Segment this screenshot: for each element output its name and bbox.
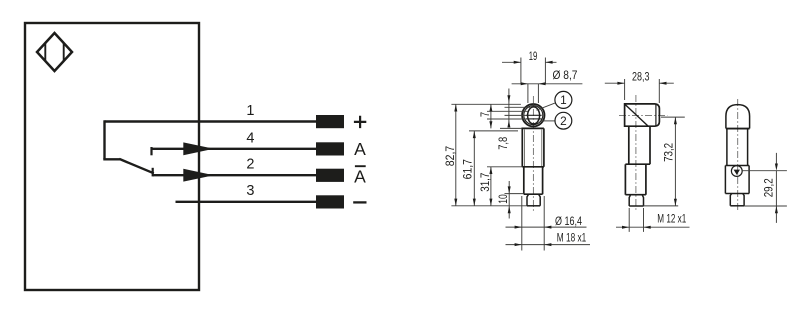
svg-text:82,7: 82,7 [443, 146, 457, 167]
svg-text:1: 1 [560, 93, 567, 107]
wire internal vertical [103, 120, 105, 159]
witness line bottom datum [451, 205, 527, 207]
svg-text:7: 7 [478, 112, 492, 118]
body step line [522, 166, 544, 168]
head diagonal [625, 104, 648, 126]
dimension 31,7 line [490, 167, 492, 206]
polarity label minus [353, 201, 366, 203]
wire internal stub [103, 158, 120, 160]
step line rear [725, 165, 749, 167]
svg-text:M 18 x1: M 18 x1 [557, 231, 587, 245]
witness line nut top (10) [505, 193, 524, 195]
centerline view3 [737, 99, 739, 212]
dimension 19 arrows [514, 61, 553, 64]
sensor body rectangle [25, 23, 199, 290]
body flange top line [521, 127, 544, 129]
balloon 1 leader [537, 103, 555, 110]
dimension 28,3 extension lines [625, 79, 660, 103]
svg-text:7,8: 7,8 [496, 137, 510, 150]
svg-text:28,3: 28,3 [632, 70, 650, 84]
ball slot bottom edge [526, 118, 542, 120]
dimension 7,8 line [508, 89, 510, 128]
svg-text:10: 10 [496, 194, 510, 204]
witness line top (82,7 / 7) [451, 103, 521, 105]
arrow on wire 4 [183, 142, 214, 155]
svg-text:19: 19 [529, 49, 538, 63]
head outer circle [522, 104, 544, 126]
witness line 61,7 top [469, 130, 518, 132]
dimension 61,7 line [473, 131, 475, 206]
dimension dia 8,7 extension lines [528, 84, 539, 103]
ball detail circle [731, 166, 742, 177]
dimension dia 16,4 line [506, 226, 587, 228]
svg-text:4: 4 [246, 131, 254, 147]
svg-text:1: 1 [246, 103, 254, 119]
body thread section right [543, 128, 545, 166]
witness line step (31,7) [487, 166, 522, 168]
svg-text:29,2: 29,2 [762, 178, 776, 197]
svg-text:3: 3 [246, 183, 254, 199]
balloon 1 [555, 91, 572, 108]
head inner ring [524, 106, 543, 125]
dimension 82,7 line [455, 104, 457, 206]
svg-text:A: A [354, 167, 366, 187]
ball detail slot [734, 170, 740, 175]
wire pin 3 (-) [176, 201, 317, 203]
witness line ball upper [505, 106, 531, 108]
dimension 19 line [502, 61, 557, 63]
head cap separation [655, 104, 657, 126]
switch blade [119, 159, 154, 173]
witness line head bottom [500, 127, 521, 129]
contact tick pin 4 [150, 147, 152, 155]
plug rear [730, 194, 744, 206]
dimension 19 extension lines [521, 58, 546, 84]
mid body side [625, 164, 646, 195]
centerline view1 [532, 96, 534, 212]
thread root line right [541, 130, 543, 167]
centerline view2 horizontal [619, 114, 668, 116]
plug rear bottom [730, 205, 744, 207]
nut section [527, 194, 540, 206]
witness line slot bottom [487, 118, 526, 120]
dimension 73,2 line [674, 117, 676, 206]
witness line 73,2 bottom [644, 205, 679, 207]
plug bottom [629, 205, 643, 207]
tube section side [629, 126, 650, 164]
dimension M12 line [616, 226, 690, 228]
wire pin 1 (+) [105, 120, 317, 122]
terminal block pin 3 [316, 195, 344, 208]
witness line 29,2 bottom [744, 205, 787, 207]
svg-text:Ø 8,7: Ø 8,7 [553, 68, 578, 82]
thread root line left [524, 130, 526, 167]
terminal block pin 2 [316, 169, 344, 182]
dimension dia 8,7 arrows [521, 82, 546, 85]
polarity label + [354, 116, 366, 128]
proximity sensor symbol (diamond) [37, 33, 72, 71]
dimension M 18 x1 line [506, 244, 591, 246]
svg-text:73,2: 73,2 [662, 143, 676, 162]
svg-text:2: 2 [246, 157, 254, 173]
dome base line [726, 128, 750, 130]
dimension 7 line [490, 104, 492, 128]
actuator ball [528, 107, 540, 124]
centerline view2 vertical [635, 95, 637, 212]
dimension 10 line [508, 181, 510, 219]
witness line ball left [487, 110, 528, 112]
arrow on wire 2 [183, 169, 214, 182]
svg-text:A: A [354, 139, 366, 159]
nut bottom [527, 205, 540, 207]
dimension 28,3 line [605, 82, 674, 84]
dimension 29,2 line [775, 153, 777, 223]
wire pin 4 (A) [152, 148, 317, 150]
witness line 73,2 top [661, 116, 685, 118]
dimension dia 8,7 line [512, 83, 583, 85]
balloon 2 leader [542, 120, 555, 122]
svg-text:2: 2 [560, 114, 567, 128]
svg-text:31,7: 31,7 [478, 172, 492, 191]
svg-text:61,7: 61,7 [461, 159, 475, 180]
contact tick pin 2 [152, 168, 154, 177]
witness line slot top [505, 114, 527, 116]
terminal block pin 1 [316, 115, 344, 128]
extension lines bottom view1 [522, 196, 544, 251]
body thread section left [521, 128, 523, 166]
head outline side [625, 104, 660, 126]
wire pin 2 (A-bar) [153, 174, 316, 176]
body mid section [524, 167, 543, 194]
terminal block pin 4 [316, 142, 344, 155]
svg-text:M 12 x1: M 12 x1 [657, 211, 686, 225]
tube rear [727, 129, 748, 166]
dimension M12 extension lines [629, 208, 643, 232]
balloon 2 [555, 112, 572, 129]
dome [726, 105, 750, 129]
mid body rear [725, 166, 749, 194]
ball slot top edge [526, 114, 542, 116]
step line side [625, 163, 650, 165]
plug side [629, 195, 643, 206]
svg-text:Ø 16,4: Ø 16,4 [555, 214, 582, 228]
witness line 29,2 top [742, 170, 787, 172]
